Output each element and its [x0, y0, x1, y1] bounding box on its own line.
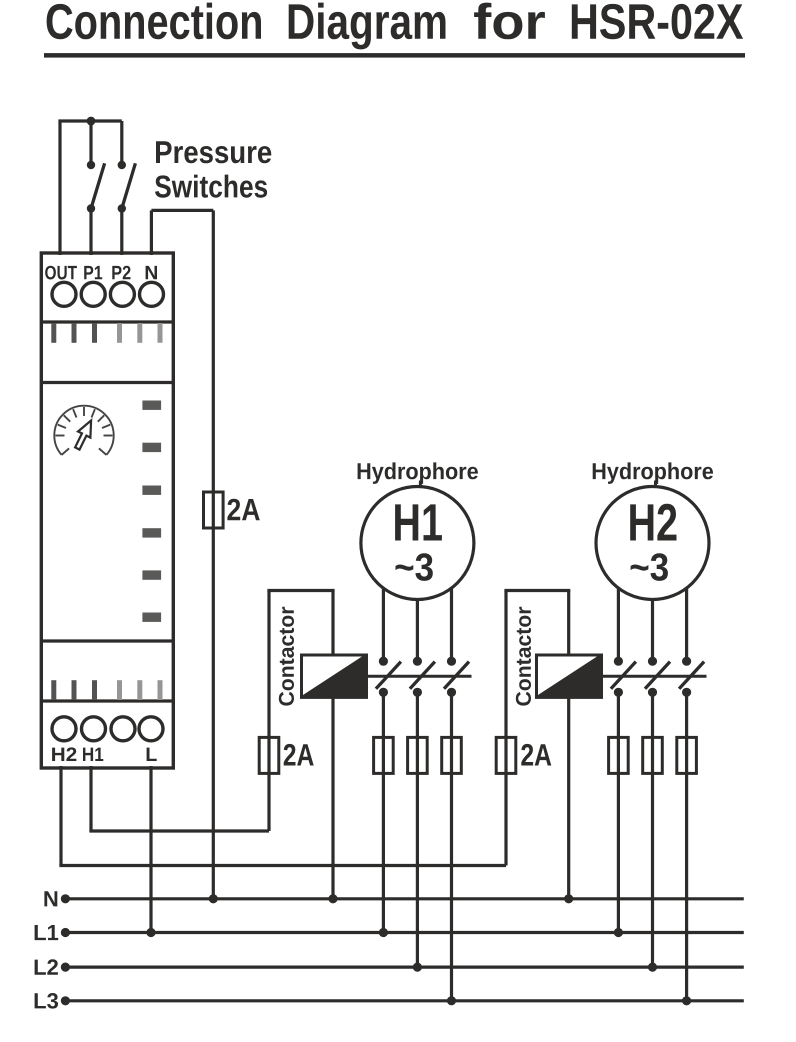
label Hydrophore for M2: [593, 462, 713, 484]
label ~3 in M2: [631, 553, 668, 581]
label H1 in M1: [395, 504, 442, 540]
junction on L2 at x=65.4: [61, 963, 70, 972]
contactor K2 coil: [537, 655, 602, 697]
label Pressure Switches: [155, 141, 271, 197]
bottom vent slits: [51, 680, 162, 700]
fuse F2: [374, 737, 394, 773]
junction on N at x=568.7: [564, 894, 573, 903]
value label 2A for F1: [284, 744, 314, 766]
hydrophore motor M2 circle: [596, 487, 709, 600]
wire coil feed K2: [504, 591, 570, 866]
divider above bottom terminals: [41, 699, 173, 702]
contactor K1 pole contact 3: [444, 657, 469, 697]
bus L3 wire: [65, 999, 743, 1002]
divider below top terminals: [41, 320, 173, 323]
wire K2 coil to N bus: [567, 698, 570, 899]
leader line M1: [419, 481, 422, 489]
junction on L2 at x=652.5: [648, 963, 657, 972]
wires M2 phase leads: [618, 588, 686, 661]
top vent slits: [51, 323, 162, 343]
fuse F1 2A coil feed K1: [259, 737, 279, 773]
terminals H2 H1 L: [52, 717, 163, 761]
wires poles to fuses H1: [383, 692, 451, 1001]
wire N terminal to N bus: [151, 210, 213, 898]
hydrophore motor M1 circle: [361, 487, 474, 600]
value label 2A for F5: [521, 744, 551, 766]
contactor K1 pole contact 1: [376, 657, 401, 697]
wires poles to fuses H2: [618, 692, 686, 1001]
contactor K2 pole contact 3: [679, 657, 704, 697]
contactor K2 pole contact 2: [645, 657, 670, 697]
contactor K2 pole contact 1: [611, 657, 636, 697]
value label 2A for F0: [227, 499, 259, 521]
junction on L1 at x=65.4: [61, 928, 70, 937]
fuse F0 2A on N wire: [204, 492, 224, 528]
junction dot on common rail: [87, 117, 96, 126]
common rail wire: [58, 119, 121, 122]
wire H1 to contactor K1 coil: [89, 766, 269, 831]
label ~3 in M1: [396, 553, 433, 581]
divider bottom of mid section: [41, 639, 173, 642]
wire OUT up to common rail: [58, 121, 61, 255]
pressure switch S1: [87, 121, 105, 255]
divider top of mid section: [41, 381, 173, 384]
pressure switch S2: [118, 121, 136, 255]
bus N wire: [65, 897, 743, 900]
junction on L1 at x=151.0: [146, 928, 155, 937]
fuse F5 2A coil feed K2: [496, 737, 516, 773]
title underline: [44, 53, 745, 58]
junction on L3 at x=451.5: [447, 996, 456, 1005]
junction on N at x=65.4: [61, 894, 70, 903]
junction on L2 at x=417.4: [413, 963, 422, 972]
wire coil feed K1: [267, 591, 334, 832]
relay module HSR-02X body: [41, 253, 173, 768]
contactor K1 pole contact 2: [410, 657, 435, 697]
junction on L1 at x=618.4: [614, 928, 623, 937]
contactor K1 linkage bar: [367, 675, 472, 678]
label H2 in M2: [630, 504, 676, 541]
title: Connection Diagram for HSR-02X: [47, 3, 744, 50]
fuse F3: [408, 737, 428, 773]
fuse F8: [677, 737, 697, 773]
fuse F6: [609, 737, 629, 773]
wire H2 to contactor K2 coil: [59, 766, 506, 866]
bus L1 wire: [65, 931, 743, 934]
wire L to L1 bus: [149, 766, 152, 933]
indicator windows column: [142, 401, 161, 622]
bus L2 wire: [65, 965, 743, 968]
junction on L3 at x=686.6: [682, 996, 691, 1005]
label L2: [35, 959, 58, 974]
label Hydrophore for M1: [358, 462, 478, 484]
contactor K2 linkage bar: [602, 675, 707, 678]
junction on N at x=213.3: [209, 894, 218, 903]
terminals OUT P1 P2 N: [45, 266, 163, 307]
junction on L1 at x=383.4: [379, 928, 388, 937]
fuse F4: [442, 737, 462, 773]
label Contactor K2 (vertical): [516, 607, 531, 706]
label L1: [35, 925, 59, 940]
label L3: [35, 993, 58, 1009]
wire K1 coil to N bus: [331, 698, 334, 899]
leader line M2: [654, 481, 657, 489]
wires M1 phase leads: [383, 588, 451, 661]
contactor K1 coil: [302, 655, 367, 697]
gauge dial icon: [54, 406, 113, 455]
junction on N at x=333.0: [328, 894, 337, 903]
label Contactor K1 (vertical): [279, 607, 294, 706]
label N: [44, 891, 57, 906]
fuse F7: [643, 737, 663, 773]
junction on L3 at x=65.4: [61, 996, 70, 1005]
